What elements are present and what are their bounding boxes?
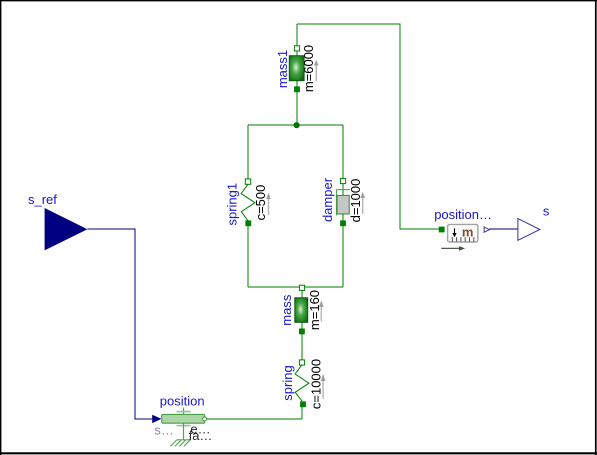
svg-text:c=500: c=500 (253, 185, 268, 221)
svg-text:position: position (160, 393, 205, 408)
svg-text:d=1000: d=1000 (348, 179, 363, 223)
svg-text:mass: mass (279, 294, 294, 326)
svg-text:m=6000: m=6000 (301, 45, 316, 92)
svg-text:m: m (462, 224, 474, 239)
svg-text:s: s (543, 204, 550, 219)
svg-text:spring1: spring1 (225, 183, 240, 226)
svg-text:s…: s… (154, 422, 174, 437)
svg-text:s_ref: s_ref (28, 192, 57, 207)
svg-text:position…: position… (434, 207, 492, 222)
svg-text:damper: damper (320, 177, 335, 222)
svg-text:c=10000: c=10000 (309, 359, 324, 409)
svg-text:fa…: fa… (189, 428, 213, 443)
svg-text:spring: spring (280, 365, 295, 400)
svg-text:m=160: m=160 (307, 290, 322, 330)
svg-text:mass1: mass1 (275, 50, 290, 88)
